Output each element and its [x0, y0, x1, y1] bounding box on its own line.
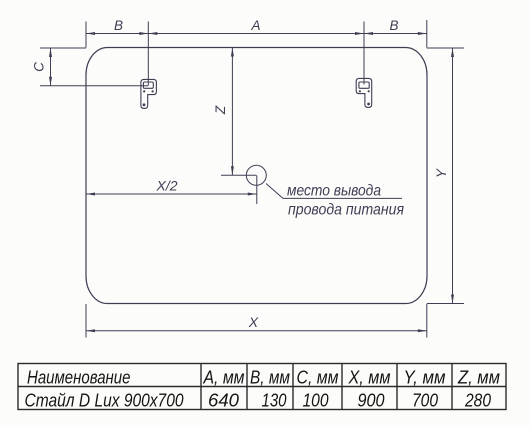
- extension line top right (Y): [427, 47, 464, 49]
- svg-text:900: 900: [358, 391, 385, 411]
- dimension line Y: [452, 48, 454, 304]
- svg-text:провода питания: провода питания: [288, 202, 404, 219]
- svg-text:640: 640: [208, 391, 239, 411]
- mirror outline: [86, 48, 427, 304]
- extension line bracket height (C): [40, 85, 148, 87]
- dimension line X: [86, 330, 427, 332]
- svg-text:X, мм: X, мм: [348, 368, 391, 388]
- svg-text:Y: Y: [434, 168, 449, 178]
- arrowheads: [49, 32, 454, 332]
- leader line to cable hole: [266, 184, 402, 199]
- extension line left edge: [85, 22, 87, 48]
- dimension labels: [32, 18, 450, 330]
- extension line hole center: [221, 174, 256, 176]
- left mounting bracket: [141, 79, 157, 108]
- cable hole circle: [246, 165, 266, 185]
- svg-text:C: C: [32, 62, 47, 72]
- dimension line Z: [231, 48, 233, 176]
- svg-text:X/2: X/2: [155, 178, 177, 194]
- svg-text:Z, мм: Z, мм: [457, 368, 500, 388]
- dimension line B-A-B: [86, 33, 427, 35]
- svg-text:место вывода: место вывода: [287, 183, 381, 200]
- svg-text:B, мм: B, мм: [250, 368, 290, 388]
- svg-text:280: 280: [464, 391, 491, 411]
- left bracket screw holes: [143, 90, 154, 106]
- dimension line X/2: [86, 193, 257, 195]
- svg-text:130: 130: [262, 391, 287, 411]
- svg-text:Стайл D Lux 900x700: Стайл D Lux 900x700: [25, 391, 184, 411]
- right mounting bracket: [356, 78, 372, 107]
- extension line bottom right (X): [426, 304, 428, 338]
- svg-text:Y, мм: Y, мм: [404, 368, 446, 388]
- svg-text:700: 700: [412, 391, 438, 411]
- svg-text:A: A: [250, 18, 260, 33]
- svg-text:A, мм: A, мм: [203, 368, 245, 388]
- right bracket screw holes: [359, 90, 370, 105]
- parameters table grid: [18, 364, 506, 410]
- extension line bottom left (X): [85, 304, 87, 338]
- extension line top edge (C): [40, 47, 86, 49]
- extension line hole vertical: [256, 175, 258, 204]
- svg-text:B: B: [114, 18, 123, 33]
- extension line bottom right (Y): [427, 303, 464, 305]
- dimension line C: [50, 48, 52, 86]
- svg-text:100: 100: [303, 391, 329, 411]
- svg-text:C, мм: C, мм: [297, 368, 339, 388]
- svg-text:X: X: [248, 314, 259, 330]
- svg-text:B: B: [389, 18, 398, 33]
- extension line right edge: [426, 20, 428, 48]
- svg-text:Наименование: Наименование: [27, 368, 131, 388]
- extension line right bracket: [363, 22, 365, 85]
- parameters table text: [25, 368, 501, 411]
- svg-text:Z: Z: [213, 105, 228, 115]
- extension line left bracket: [147, 22, 149, 86]
